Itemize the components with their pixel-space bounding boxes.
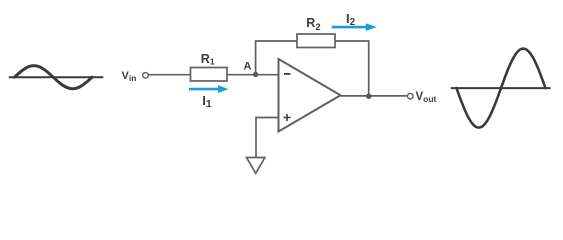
terminal Vout <box>408 93 414 99</box>
svg-text:Vin: Vin <box>122 70 137 83</box>
resistor R1 <box>191 68 228 82</box>
wire R2 to output node top <box>335 40 369 42</box>
node A junction dot <box>253 72 258 77</box>
input waveform sine curve <box>15 66 93 89</box>
current arrow I2 <box>332 23 377 31</box>
wire non-inverting input to ground <box>256 118 279 158</box>
wire feedback top left to R2 <box>255 40 297 42</box>
output waveform sine baseline <box>451 87 551 89</box>
op-amp U1 triangle <box>279 59 341 132</box>
wire node A up to feedback <box>255 41 257 75</box>
wire op-amp output to Vout terminal <box>341 95 408 97</box>
current arrow I1 <box>189 85 229 93</box>
svg-text:Vout: Vout <box>416 91 437 104</box>
op-amp inverting input minus sign <box>284 73 291 75</box>
resistor R2 <box>297 34 335 48</box>
input waveform sine baseline <box>9 76 104 78</box>
terminal Vin <box>143 73 149 79</box>
svg-text:I2: I2 <box>346 11 356 28</box>
output node junction dot <box>366 94 371 99</box>
wire Vin terminal to R1 <box>149 74 191 76</box>
wire feedback right vertical <box>368 40 370 96</box>
ground <box>247 158 265 174</box>
op-amp non-inverting input plus sign <box>284 114 291 121</box>
svg-text:R1: R1 <box>201 52 215 67</box>
output waveform sine curve <box>457 49 546 128</box>
svg-text:I1: I1 <box>202 93 212 110</box>
svg-text:R2: R2 <box>306 16 320 33</box>
wire R1 to op-amp inverting input <box>227 74 279 76</box>
svg-text:A: A <box>244 61 252 73</box>
